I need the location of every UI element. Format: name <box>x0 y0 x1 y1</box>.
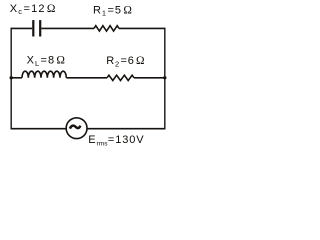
wire bottom-right segment <box>87 128 165 130</box>
svg-text:XL=8Ω: XL=8Ω <box>27 54 66 67</box>
svg-text:R2=6Ω: R2=6Ω <box>106 55 145 68</box>
AC source sine symbol <box>70 126 80 129</box>
node junction right <box>163 76 166 79</box>
wire top-right segment <box>119 27 165 29</box>
resistor R1 <box>94 26 119 31</box>
AC source E <box>66 118 87 139</box>
resistor R2 <box>107 75 134 80</box>
wire middle-left stub <box>11 77 22 79</box>
node junction left <box>10 76 13 79</box>
wire bottom-left segment <box>11 128 66 130</box>
wire top-middle segment <box>41 27 94 29</box>
inductor XL <box>22 71 66 78</box>
svg-text:R1=5Ω: R1=5Ω <box>93 4 133 17</box>
wire top-left segment <box>11 27 32 29</box>
svg-text:Xc=12Ω: Xc=12Ω <box>10 3 57 16</box>
wire middle-right segment <box>134 77 165 79</box>
capacitor Xc <box>33 20 40 36</box>
wire right rail <box>164 28 166 130</box>
svg-text:Erms=130V: Erms=130V <box>88 134 144 147</box>
wire left rail <box>10 28 12 130</box>
wire middle-center segment <box>66 77 107 79</box>
